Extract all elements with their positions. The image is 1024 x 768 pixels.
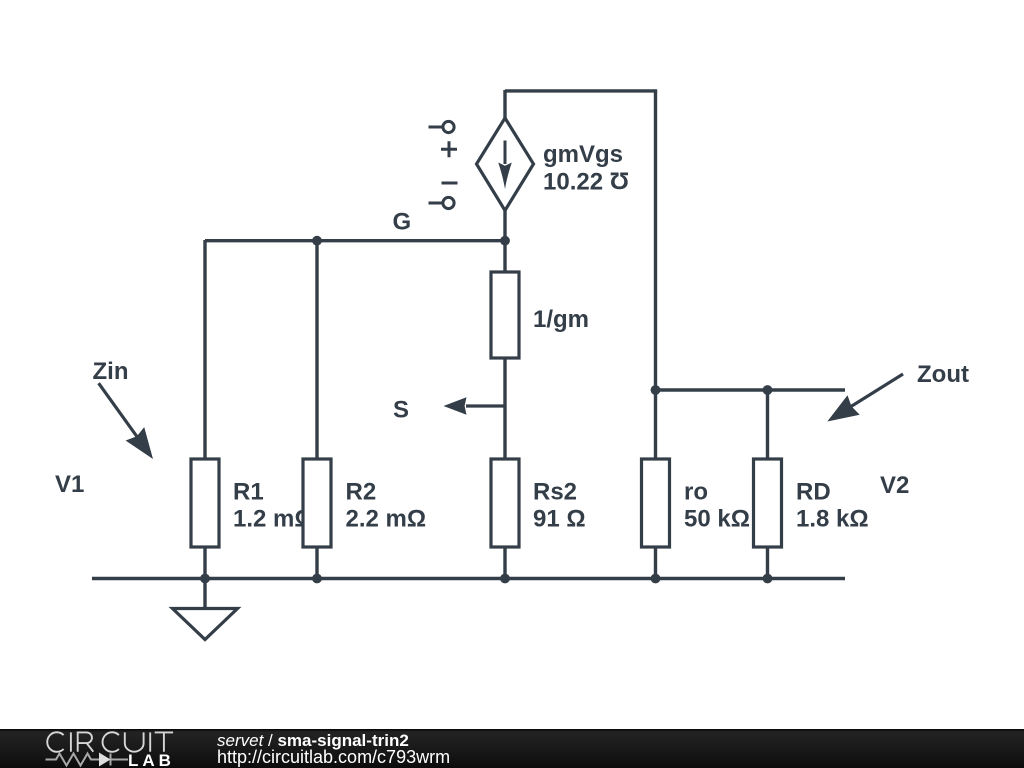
terminal minus circle: [443, 197, 454, 208]
junction rail-R2: [312, 574, 322, 584]
label Rs2 value: [533, 479, 586, 533]
resistor RD: [754, 459, 782, 547]
logo CIRCUIT letters: [47, 732, 173, 752]
svg-text:gmVgs: gmVgs: [543, 141, 623, 168]
resistor ro: [642, 459, 670, 547]
junction rail-Rs2: [500, 574, 510, 584]
node dots: [200, 236, 772, 584]
wire 1/gm top lead: [503, 240, 506, 273]
wire 1/gm to Rs2: [503, 357, 506, 460]
footer title: [0, 728, 1, 730]
svg-text:10.22: 10.22: [543, 169, 603, 196]
current source U1 gmVgs diamond: [477, 118, 534, 211]
wire ro bottom lead: [654, 546, 657, 579]
label R2 value: [346, 479, 427, 533]
wire RD drop: [766, 390, 769, 460]
wire Rs2 bottom lead: [503, 546, 506, 579]
wire source bottom lead: [503, 209, 506, 240]
wire right vertical to ro: [654, 90, 657, 460]
label RD value: [796, 479, 869, 533]
junction RD-Zout: [763, 385, 773, 395]
junction rail-ro: [651, 574, 661, 584]
current source arrow: [498, 141, 512, 190]
logo resistor-diode symbol: [46, 754, 129, 766]
svg-text:1/gm: 1/gm: [533, 306, 589, 333]
footer bar: [0, 729, 1024, 768]
junction rail-R1: [200, 574, 210, 584]
svg-text:50 kΩ: 50 kΩ: [684, 506, 750, 533]
terminal plus circle: [429, 121, 458, 208]
resistor 1/gm: [491, 272, 519, 358]
annotation Zin arrow: [99, 383, 153, 459]
resistor Rs2: [491, 459, 519, 547]
svg-text:LAB: LAB: [128, 751, 175, 768]
wire R1 bottom lead: [203, 546, 206, 579]
svg-text:2.2 mΩ: 2.2 mΩ: [346, 506, 427, 533]
junction G-R2: [312, 236, 322, 246]
wire R2 column: [315, 240, 318, 460]
annotation Zout arrow: [827, 374, 903, 422]
wire top rail: [505, 89, 657, 92]
junction G-source: [500, 236, 510, 246]
label gmVgs value: [543, 141, 629, 196]
wire Zout horizontal: [656, 388, 846, 391]
junction rail-RD: [763, 574, 773, 584]
resistor R2: [303, 459, 331, 547]
wire bottom rail: [92, 577, 845, 580]
plus sign: [441, 141, 457, 157]
svg-text:Zout: Zout: [917, 361, 969, 388]
svg-text:RD: RD: [796, 479, 831, 506]
svg-text:S: S: [393, 397, 409, 424]
svg-text:R1: R1: [233, 479, 264, 506]
svg-text:Zin: Zin: [93, 358, 129, 385]
wire RD bottom lead: [766, 546, 769, 579]
wire R1 column: [203, 240, 206, 460]
wire node G horizontal: [205, 239, 505, 242]
svg-text:Ω: Ω: [610, 167, 629, 194]
ground lead: [203, 579, 206, 609]
wire R2 bottom lead: [315, 546, 318, 579]
svg-text:1.8 kΩ: 1.8 kΩ: [796, 506, 869, 533]
ground: [173, 609, 238, 640]
wire source top lead: [503, 90, 506, 119]
resistor R1: [191, 459, 219, 547]
resistor R1 value label: [233, 479, 314, 533]
node S arrow: [444, 397, 506, 415]
svg-text:V1: V1: [55, 471, 84, 498]
svg-text:91 Ω: 91 Ω: [533, 506, 586, 533]
minus sign: [442, 182, 458, 185]
label ro value: [684, 479, 750, 533]
svg-text:G: G: [393, 209, 412, 236]
junction ro-Zout: [651, 385, 661, 395]
svg-text:ro: ro: [684, 479, 708, 506]
svg-text:R2: R2: [346, 479, 377, 506]
svg-text:V2: V2: [880, 472, 909, 499]
svg-text:Rs2: Rs2: [533, 479, 577, 506]
